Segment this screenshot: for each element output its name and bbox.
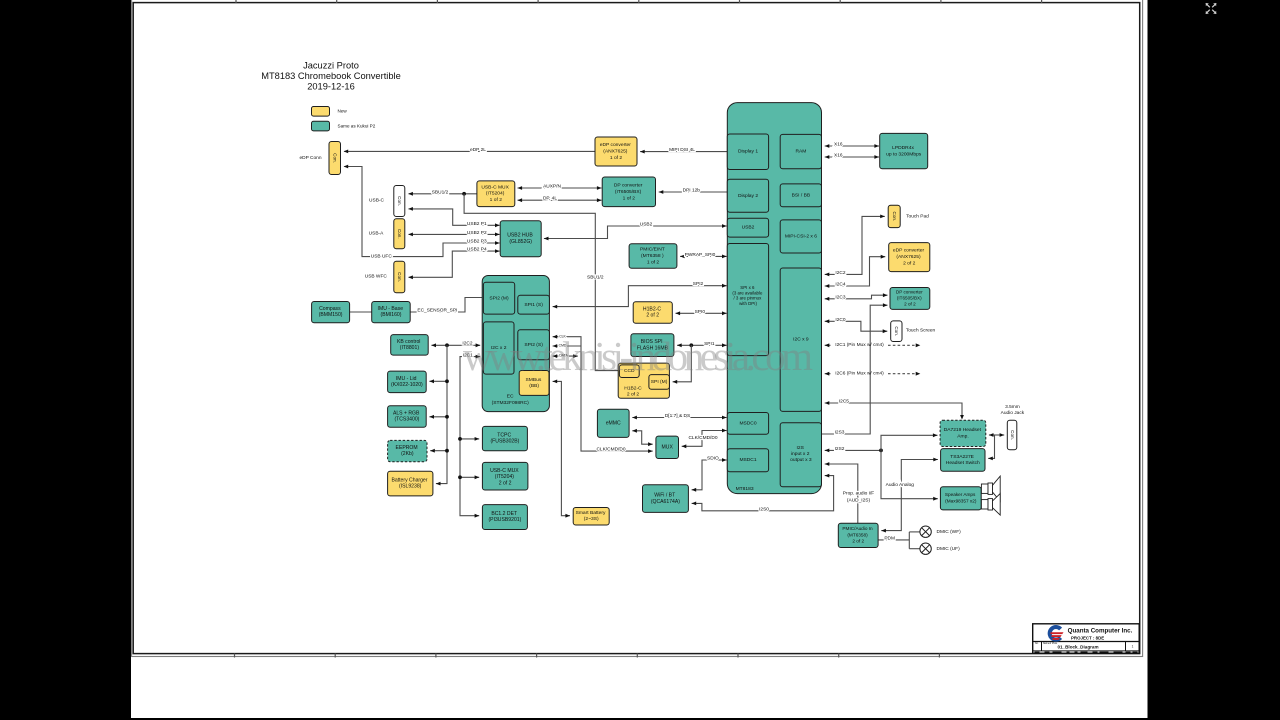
svg-text:01_Block_Diagram: 01_Block_Diagram xyxy=(1057,645,1098,650)
svg-text:BC1.2 DET (PI3USB9201): BC1.2 DET (PI3USB9201) xyxy=(488,511,521,523)
svg-text:MUX: MUX xyxy=(662,445,674,451)
svg-text:Con.: Con. xyxy=(397,272,402,282)
svg-text:Nameof Plots: Nameof Plots xyxy=(1043,642,1058,645)
svg-text:DMIC (WF): DMIC (WF) xyxy=(937,529,962,535)
svg-text:SPI1 (S): SPI1 (S) xyxy=(524,302,543,308)
svg-text:USB-A: USB-A xyxy=(369,230,384,236)
svg-text:www.teknisi-indonesia.com: www.teknisi-indonesia.com xyxy=(463,333,813,379)
svg-text:(AUD_I2S): (AUD_I2S) xyxy=(847,497,871,503)
svg-text:PROJECT : 8DE: PROJECT : 8DE xyxy=(1071,635,1104,640)
svg-text:3.5mm: 3.5mm xyxy=(1005,404,1020,410)
svg-text:2019-12-16: 2019-12-16 xyxy=(307,82,355,92)
svg-text:Same as Kukui P2: Same as Kukui P2 xyxy=(338,124,376,129)
svg-text:No.: No. xyxy=(1035,642,1039,645)
svg-text:SPI0: SPI0 xyxy=(695,309,706,315)
svg-text:SBU1/2: SBU1/2 xyxy=(432,189,449,195)
svg-text:eDP 2L: eDP 2L xyxy=(470,147,486,153)
svg-text:I2S0: I2S0 xyxy=(759,506,769,512)
svg-text:BSI / BB: BSI / BB xyxy=(792,193,810,199)
svg-text:I2C2: I2C2 xyxy=(835,270,845,276)
svg-text:I2S3: I2S3 xyxy=(835,429,845,435)
svg-text:EC: EC xyxy=(507,394,514,400)
svg-text:I2C1 (Pin Mux w/ cm4): I2C1 (Pin Mux w/ cm4) xyxy=(835,342,884,348)
svg-text:H1B2-C: H1B2-C xyxy=(624,386,642,392)
svg-text:Jacuzzi Proto: Jacuzzi Proto xyxy=(303,61,359,71)
svg-text:USB2 HUB (GL852G): USB2 HUB (GL852G) xyxy=(507,233,534,245)
svg-text:MT8183: MT8183 xyxy=(736,486,754,492)
svg-text:1: 1 xyxy=(1132,644,1134,648)
svg-text:SBU1/2: SBU1/2 xyxy=(587,274,604,280)
svg-text:Con.: Con. xyxy=(332,153,337,163)
svg-text:DPI 12b: DPI 12b xyxy=(683,187,701,193)
svg-text:Display 1: Display 1 xyxy=(738,149,758,155)
svg-text:Con.: Con. xyxy=(397,229,402,239)
svg-text:USB2: USB2 xyxy=(742,225,755,231)
svg-text:eDP Conn: eDP Conn xyxy=(299,155,321,161)
svg-text:D[1:7] & DS: D[1:7] & DS xyxy=(665,413,690,419)
svg-text:Touch Pad: Touch Pad xyxy=(906,214,929,220)
svg-text:I2C6 (Pin Mux w/ cm4): I2C6 (Pin Mux w/ cm4) xyxy=(835,370,884,376)
svg-text:Con.: Con. xyxy=(397,196,402,206)
svg-text:Audio Analog: Audio Analog xyxy=(886,482,915,488)
svg-text:KB control (IT8801): KB control (IT8801) xyxy=(397,339,422,351)
svg-text:SPI2: SPI2 xyxy=(693,281,704,287)
svg-text:PWRAP_SPI0: PWRAP_SPI0 xyxy=(685,252,716,258)
svg-text:Quanta Computer Inc.: Quanta Computer Inc. xyxy=(1068,627,1133,634)
svg-text:Con.: Con. xyxy=(1010,430,1015,440)
svg-text:USB-C: USB-C xyxy=(369,197,384,203)
svg-text:USB2 P2: USB2 P2 xyxy=(467,230,487,236)
svg-text:CLK/CMD/D0: CLK/CMD/D0 xyxy=(688,435,717,441)
svg-text:Prop. audio I/F: Prop. audio I/F xyxy=(843,491,875,497)
svg-text:I2C3: I2C3 xyxy=(835,294,845,300)
svg-text:ALS + RGB (TCS3400): ALS + RGB (TCS3400) xyxy=(393,411,421,423)
svg-text:Speaker Amps (Max98357 x2): Speaker Amps (Max98357 x2) xyxy=(945,492,977,503)
svg-text:Compass (BMM150): Compass (BMM150) xyxy=(319,306,343,318)
svg-text:SDIO: SDIO xyxy=(707,455,719,461)
svg-text:New: New xyxy=(338,109,348,114)
svg-text:SPI2 (M): SPI2 (M) xyxy=(489,296,509,302)
svg-text:I2C4: I2C4 xyxy=(835,281,845,287)
svg-text:Con.: Con. xyxy=(894,326,899,336)
svg-text:X16: X16 xyxy=(834,141,843,147)
svg-text:SPI (M): SPI (M) xyxy=(651,379,668,385)
svg-text:2 of 2: 2 of 2 xyxy=(627,392,640,398)
svg-text:DMIC (UF): DMIC (UF) xyxy=(937,546,961,552)
svg-text:WiFi / BT (QCA6174A): WiFi / BT (QCA6174A) xyxy=(651,493,680,505)
svg-text:USB WFC: USB WFC xyxy=(365,274,388,280)
svg-text:MSDC1: MSDC1 xyxy=(739,457,756,463)
svg-text:Audio Jack: Audio Jack xyxy=(1001,410,1025,416)
svg-text:AUXP/N: AUXP/N xyxy=(543,183,561,189)
svg-text:USB2 P3: USB2 P3 xyxy=(467,238,487,244)
svg-text:Con.: Con. xyxy=(892,212,897,222)
svg-text:USB UFC: USB UFC xyxy=(371,254,393,260)
svg-text:(STM32F098RC): (STM32F098RC) xyxy=(492,400,530,406)
svg-text:DP, 4L: DP, 4L xyxy=(543,196,557,202)
svg-text:CLK/CMD/D0: CLK/CMD/D0 xyxy=(596,447,625,453)
svg-text:RAM: RAM xyxy=(795,149,806,155)
svg-text:Touch Screen: Touch Screen xyxy=(906,328,936,334)
svg-text:USB2 P4: USB2 P4 xyxy=(467,247,487,253)
svg-text:eMMC: eMMC xyxy=(606,421,621,427)
svg-text:I2S2: I2S2 xyxy=(835,446,845,452)
svg-text:MIPI-CSI-2 x 6: MIPI-CSI-2 x 6 xyxy=(785,234,817,240)
svg-text:EC_SENSOR_SPI: EC_SENSOR_SPI xyxy=(417,308,457,314)
svg-text:MT8183 Chromebook Convertible: MT8183 Chromebook Convertible xyxy=(261,71,401,81)
svg-text:MSDC0: MSDC0 xyxy=(739,421,756,427)
svg-text:MIPI DSI 4L: MIPI DSI 4L xyxy=(669,147,695,153)
svg-text:PDM: PDM xyxy=(884,535,895,541)
svg-text:X16: X16 xyxy=(834,152,843,158)
svg-text:I2C0: I2C0 xyxy=(835,317,845,323)
svg-text:USB2: USB2 xyxy=(640,221,653,227)
svg-text:IMU - Base (BMI160): IMU - Base (BMI160) xyxy=(378,306,405,318)
svg-text:I2C5: I2C5 xyxy=(839,398,849,404)
svg-text:USB2 P1: USB2 P1 xyxy=(467,221,487,227)
svg-text:Display 2: Display 2 xyxy=(738,193,758,199)
